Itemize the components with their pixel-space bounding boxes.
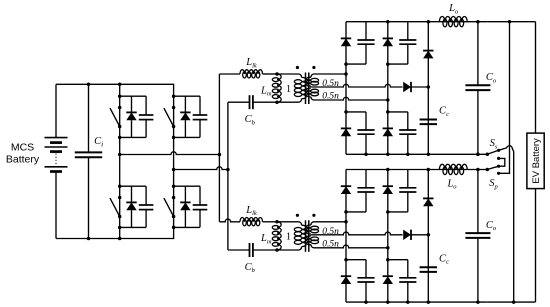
svg-text:0.5n: 0.5n xyxy=(322,227,339,237)
svg-text:0.5n: 0.5n xyxy=(322,79,339,89)
svg-text:MCS: MCS xyxy=(11,142,34,154)
svg-text:0.5n: 0.5n xyxy=(322,239,339,249)
svg-text:EV Battery: EV Battery xyxy=(531,138,542,184)
svg-text:1: 1 xyxy=(286,84,291,95)
svg-text:0.5n: 0.5n xyxy=(322,92,339,102)
svg-text:Battery: Battery xyxy=(6,154,40,166)
svg-text:1: 1 xyxy=(286,232,291,243)
